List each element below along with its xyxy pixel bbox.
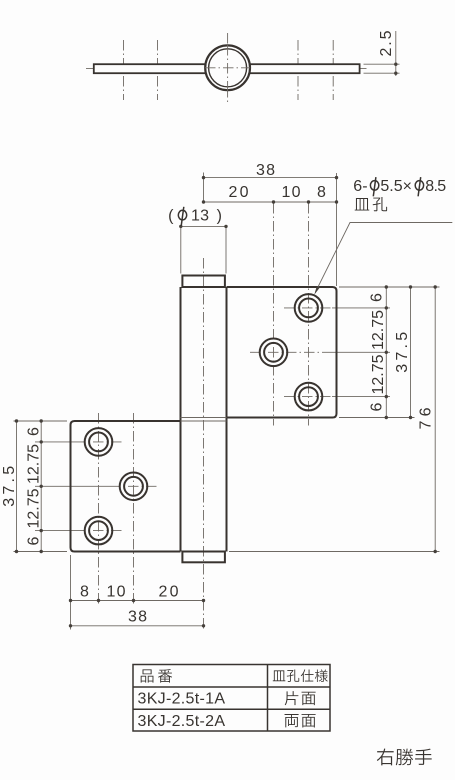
svg-text:2.5: 2.5 xyxy=(378,30,395,56)
svg-text:10: 10 xyxy=(282,184,301,201)
svg-text:8.5: 8.5 xyxy=(425,178,446,195)
svg-text:(: ( xyxy=(168,208,174,225)
svg-text:13: 13 xyxy=(191,208,209,225)
svg-text:12.75: 12.75 xyxy=(370,354,387,394)
svg-text:3KJ-2.5t-2A: 3KJ-2.5t-2A xyxy=(138,713,226,730)
svg-text:6: 6 xyxy=(26,427,43,436)
svg-text:37.5: 37.5 xyxy=(394,332,411,373)
svg-text:8: 8 xyxy=(317,184,326,201)
svg-text:38: 38 xyxy=(128,609,147,626)
svg-text:10: 10 xyxy=(107,584,126,601)
svg-text:3KJ-2.5t-1A: 3KJ-2.5t-1A xyxy=(138,691,226,708)
svg-text:6-: 6- xyxy=(353,178,367,195)
svg-text:37.5: 37.5 xyxy=(1,466,18,507)
svg-text:6: 6 xyxy=(26,536,43,545)
svg-text:12.75: 12.75 xyxy=(26,444,43,484)
svg-text:12.75: 12.75 xyxy=(370,310,387,350)
svg-text:8: 8 xyxy=(80,584,89,601)
svg-text:12.75: 12.75 xyxy=(26,488,43,528)
svg-text:6: 6 xyxy=(369,293,386,302)
svg-text:5.5×: 5.5× xyxy=(380,178,412,195)
svg-text:6: 6 xyxy=(369,402,386,411)
svg-text:38: 38 xyxy=(256,162,275,179)
svg-text:): ) xyxy=(217,208,222,225)
